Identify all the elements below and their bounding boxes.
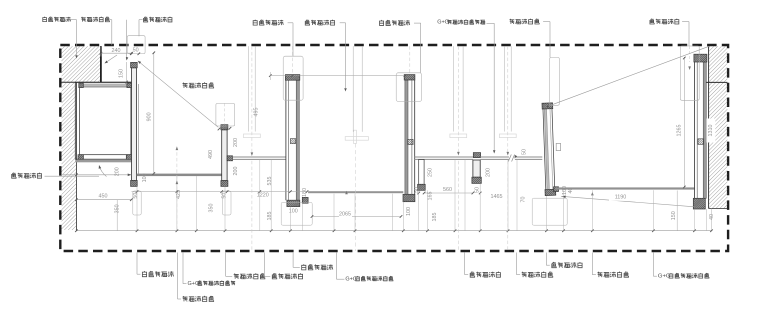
short diagonal leader to box corner [105,55,117,63]
door floor track band [308,191,403,193]
mullion M2 body [222,130,227,181]
svg-text:G+G: G+G [437,20,449,26]
frame around M4 top [396,73,421,102]
pane2 connector at M2 [227,156,232,161]
svg-text:100: 100 [406,207,412,216]
svg-text:180: 180 [302,188,308,197]
svg-text:200: 200 [485,168,491,177]
leader diagonal M1 [138,61,219,128]
svg-text:490: 490 [208,150,214,159]
frame above leaf [550,57,560,105]
dashed detail boundary box [60,45,728,251]
svg-text:1220: 1220 [257,193,269,199]
svg-text:200: 200 [233,167,239,176]
frame below leaf [532,198,567,225]
svg-text:1265: 1265 [676,125,682,137]
M1 bottom cap [131,180,138,186]
M3 fastener [290,139,295,144]
svg-text:50: 50 [133,193,139,199]
MR fastener [698,139,704,145]
pane break mark [508,155,511,162]
M2 top cap [221,125,228,130]
svg-text:450: 450 [99,193,108,199]
svg-text:240: 240 [112,48,121,54]
frame below M3 [281,202,312,225]
svg-text:250: 250 [427,168,433,177]
frame right mullion [680,46,699,100]
svg-text:50: 50 [521,149,527,155]
right mullion MR [694,62,696,198]
dim 240 [101,52,131,54]
dim 1190 [561,196,695,207]
frame + dim 50 above M1 [127,36,145,54]
small frames below M1/M2 feet [133,191,141,215]
wall strip edge [75,82,77,230]
label: G+G glass D [437,20,485,26]
label: baise rujiaoqi [81,17,109,22]
ghost element (faint door leaf) [345,137,368,141]
leaf fastener box [556,143,560,150]
long bottom dim line [76,230,711,232]
structural column (hatched), top-left [62,46,101,82]
svg-text:1190: 1190 [615,194,627,200]
bottom label 11 G+G [652,253,654,277]
column face line [100,46,102,82]
bottom label 8 [516,253,518,275]
curved leader to box pane [99,166,106,177]
top dim line M3-M4 [270,75,405,77]
frame above M2 [216,103,235,126]
extension lines [136,186,138,230]
M3 bottom cap [287,200,300,206]
svg-text:350: 350 [208,204,214,213]
label: baise futanqi E [509,19,539,24]
svg-text:535: 535 [267,177,273,186]
dim 1265 / 1310 [683,57,685,188]
ghost band [352,46,354,132]
mullion M4 (150 tube) [405,80,408,194]
mullion M3 (150 tube) [285,80,287,200]
box corner block BR [126,155,132,160]
M4 top cap [404,75,415,80]
internal label baise futanqi [183,82,214,88]
svg-text:100: 100 [289,209,298,215]
door centerline [355,144,357,252]
bottom label 5 [263,253,265,277]
svg-text:1465: 1465 [491,194,503,200]
svg-text:185: 185 [267,212,273,221]
svg-text:50: 50 [133,48,139,54]
glass pane 4 [480,156,509,158]
mullion M1 body [132,68,137,181]
svg-text:150: 150 [118,69,124,78]
svg-text:40: 40 [568,188,574,194]
label: baise futanqi C [305,20,334,25]
stub bottom cap [418,184,426,190]
right ledge line [706,81,727,83]
svg-text:G+G: G+G [188,281,200,287]
right wall edge [708,46,710,208]
bottom label 3 [177,253,179,300]
beam/box outer [75,82,134,159]
M4 fastener [408,139,413,144]
ghost tee pane4 [499,134,516,138]
bottom label 1 [136,253,138,275]
svg-text:50: 50 [474,187,480,193]
svg-text:1310: 1310 [708,125,714,137]
box bottom pane band [75,160,134,163]
svg-text:40: 40 [709,214,715,220]
svg-text:350: 350 [115,204,121,213]
svg-text:200: 200 [233,138,239,147]
box corner block BL [78,155,83,160]
bottom label 9 [545,253,547,266]
svg-text:150: 150 [671,211,677,220]
label: baise futanqi B [253,20,283,25]
frame around M3 top [283,56,303,100]
pane4 band [503,46,505,131]
M3 top cap [285,75,299,81]
M2 bottom cap [221,181,228,187]
right wall hatched strip [709,46,728,208]
svg-text:2065: 2065 [339,211,351,217]
box top gray band [79,84,132,86]
pane2 leader band [248,46,250,131]
svg-text:560: 560 [443,187,452,193]
bottom label 6b G+G [336,253,338,280]
glazing bead at M1 [137,84,139,174]
pane1 centerline [176,147,178,231]
pane3 band [453,46,455,131]
wall stub below pane 3 [419,159,424,184]
wall strip below column (hatched) [62,83,77,230]
svg-text:100: 100 [142,173,148,182]
glass pane 2 [233,156,286,158]
glass pane 1 (laminated, double line) [136,174,221,177]
svg-text:200: 200 [114,167,120,176]
M5 bottom cap [472,177,481,183]
M4 centerline [409,46,411,74]
M1 top cap [131,62,138,67]
dim 900 [153,52,155,174]
MR top cap [694,54,707,62]
leader diagonal right (leaf) [546,46,710,107]
label: jianzhu jiegou zhu [43,17,71,22]
svg-text:50: 50 [222,193,228,199]
dim row y191.6 [132,191,308,193]
bottom label 7 [464,253,466,275]
M3 centerline [292,46,294,74]
right wall bottom [709,208,728,210]
tilted door leaf [542,103,556,196]
glass pane 3 [415,156,473,158]
M4 bottom cap [403,194,415,201]
dim 150 [126,62,128,82]
bottom label 4 [225,253,227,277]
ghost tee pane2 [244,134,261,138]
box corner block TL [79,83,84,88]
label: baise futanqi D2 [380,20,410,25]
pane5 connector at leaf [554,187,559,192]
M5 top connector [473,153,480,158]
label: baise futanqi A [144,17,172,22]
label: baise futanqi F [650,19,679,24]
column ledge line [62,81,134,83]
svg-text:185: 185 [432,213,438,222]
svg-text:495: 495 [254,108,260,117]
door pivot block [302,197,308,203]
dim 450 [63,174,131,176]
MR bottom cap [693,198,705,209]
bottom label 10 [591,253,593,275]
svg-text:70: 70 [520,197,526,203]
leader verticals from ru-jiao-qi label [111,20,113,45]
far-left label baise futanqi [12,173,42,178]
mullion M5 [473,160,480,177]
glass pane 5 [555,187,694,189]
svg-text:900: 900 [147,112,153,121]
box corner block TR [127,83,131,88]
beam/box inner [79,87,130,155]
ghost tee pane3 [450,134,467,138]
bottom label 2 G+G [182,253,184,284]
bottom label 6 [292,253,294,268]
